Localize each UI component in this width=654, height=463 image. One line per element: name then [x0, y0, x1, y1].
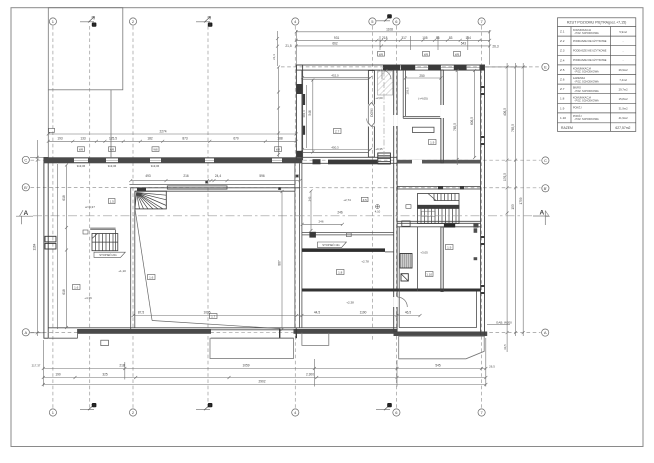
- north arrow marker B top: [196, 17, 212, 28]
- bottom connector verticals: [42, 340, 44, 387]
- boxed room labels: [73, 129, 454, 319]
- svg-text:31,9m2: 31,9m2: [619, 107, 628, 111]
- stair niche top wall lines: [90, 227, 115, 229]
- grid bubbles right: E, C, B', A: [542, 63, 549, 336]
- bottom room dim row: [132, 314, 422, 317]
- svg-text:24,4: 24,4: [215, 174, 221, 178]
- B' corridor top wall (right wing, double line): [397, 186, 480, 189]
- svg-text:GAB. W200: GAB. W200: [496, 321, 512, 325]
- svg-text:-: -: [623, 60, 624, 63]
- svg-text:931: 931: [334, 36, 340, 40]
- svg-text:452,0: 452,0: [331, 73, 339, 77]
- top-right room dim 250: [405, 77, 441, 79]
- roof outline drop line right: [110, 90, 112, 158]
- svg-text:B: B: [209, 404, 211, 408]
- svg-text:Z.6: Z.6: [560, 78, 565, 82]
- svg-text:Z.5: Z.5: [363, 198, 368, 202]
- dark wall piece D.D: [444, 223, 455, 228]
- dark segments of row-E wall: [383, 65, 485, 71]
- grid row A (horizontal dashed): [31, 332, 541, 334]
- label box below entry: [101, 340, 109, 345]
- svg-text:- POZ. SCHODKOWA: - POZ. SCHODKOWA: [574, 100, 599, 103]
- svg-text:4,10: 4,10: [375, 210, 381, 214]
- bottom wall of right wing: [394, 332, 488, 337]
- winder stair in big room corner: [135, 188, 166, 209]
- big room walls (double thin lines): [131, 70, 302, 331]
- svg-text:33,5: 33,5: [503, 344, 507, 350]
- svg-text:1.10: 1.10: [426, 273, 432, 277]
- bottom dimension row 3 overall: [42, 383, 488, 386]
- svg-text:450,3: 450,3: [331, 145, 339, 149]
- roof outline drop line left: [47, 90, 49, 158]
- svg-text:W9: W9: [379, 52, 384, 56]
- interior dim row above C wall: [47, 140, 298, 143]
- top dimension row 1: [295, 39, 491, 42]
- left vertical dimension line: [30, 140, 44, 336]
- wall with door DG90 (double line): [368, 71, 374, 158]
- window/radiator marks on right wall: [481, 86, 485, 294]
- stopien trapezoid label: [318, 242, 347, 248]
- level mark in corridor: [376, 205, 380, 209]
- svg-text:Z.2: Z.2: [560, 39, 565, 43]
- shelf rectangle top-right room: [413, 127, 435, 132]
- svg-text:1.9: 1.9: [447, 246, 452, 250]
- svg-text:190: 190: [55, 373, 61, 377]
- svg-text:POKÓJ: POKÓJ: [573, 106, 582, 109]
- svg-text:176,5: 176,5: [503, 173, 507, 181]
- svg-text:RZUT POZIOMU PIĘTRA(poz.+7,15): RZUT POZIOMU PIĘTRA(poz.+7,15): [567, 21, 627, 25]
- svg-text:STOPIEŃ 20x: STOPIEŃ 20x: [99, 253, 117, 257]
- svg-text:B': B': [24, 185, 28, 190]
- left room vertical dim: [66, 165, 68, 328]
- svg-text:+0,35: +0,35: [375, 147, 383, 151]
- svg-text:(+4,05): (+4,05): [418, 97, 428, 101]
- svg-text:193: 193: [57, 137, 63, 141]
- svg-text:1.8: 1.8: [560, 97, 565, 101]
- svg-text:PODDASZE NIE UŻYTKOWE: PODDASZE NIE UŻYTKOWE: [573, 59, 607, 62]
- svg-text:A: A: [540, 210, 545, 217]
- grid bubbles left: C, B', A: [22, 156, 29, 336]
- bottom dimension row 1: [42, 367, 488, 370]
- notch in big room top wall: [167, 186, 227, 189]
- svg-text:153: 153: [511, 204, 515, 210]
- svg-text:606,5: 606,5: [470, 117, 474, 125]
- small vertical dim near x278 top: [277, 31, 279, 66]
- svg-text:133: 133: [80, 137, 86, 141]
- svg-text:1.9: 1.9: [430, 141, 435, 145]
- north arrow marker B bottom: [196, 403, 212, 410]
- svg-text:243: 243: [307, 196, 311, 201]
- upper room vertical dim: [312, 80, 314, 152]
- svg-text:1108: 1108: [386, 27, 393, 31]
- window sill lines in row-E wall: [415, 67, 479, 69]
- svg-text:1.6: 1.6: [74, 286, 79, 290]
- section marker A right: [533, 210, 549, 226]
- svg-text:B': B': [544, 186, 548, 191]
- svg-text:Z.7: Z.7: [560, 87, 565, 91]
- svg-text:Z.3: Z.3: [560, 49, 565, 53]
- svg-text:PODDASZE NIE UŻYTKOWE: PODDASZE NIE UŻYTKOWE: [573, 49, 607, 52]
- svg-text:15,8m2: 15,8m2: [619, 97, 628, 101]
- grid line B (vertical dashed): [207, 26, 209, 408]
- section marker A left: [16, 210, 33, 224]
- dark nub on corridor bottom wall: [473, 224, 478, 228]
- grid bubbles bottom: [49, 409, 485, 416]
- window openings in row-C wall: [74, 158, 282, 162]
- top exterior wall (row E, double line): [296, 65, 484, 70]
- svg-text:+2,00: +2,00: [375, 96, 383, 100]
- lower-right room inner lines: [399, 227, 476, 328]
- svg-text:154: 154: [466, 36, 472, 40]
- svg-text:- POZ. SCHODKOWA: - POZ. SCHODKOWA: [574, 90, 599, 93]
- svg-text:29,7m2: 29,7m2: [619, 87, 628, 91]
- svg-text:- POZ. SCHODKOWA: - POZ. SCHODKOWA: [574, 71, 599, 74]
- svg-text:W9: W9: [424, 52, 429, 56]
- svg-text:873: 873: [182, 137, 188, 141]
- svg-text:W8: W8: [79, 148, 84, 152]
- corridor step line left wing: [129, 183, 295, 185]
- grid line 6 (vertical dashed): [395, 26, 397, 408]
- top-right small room left wall: [403, 70, 443, 118]
- svg-text:618: 618: [62, 195, 66, 201]
- svg-text:- POZ. SCHODKOWA: - POZ. SCHODKOWA: [574, 32, 599, 35]
- svg-text:+2,74: +2,74: [343, 198, 351, 202]
- big room vertical dim: [281, 192, 283, 331]
- lower-right divider wall vertical (double line): [441, 227, 443, 292]
- svg-text:W8: W8: [110, 148, 115, 152]
- corridor dim row 246: [302, 223, 342, 225]
- svg-text:596: 596: [259, 174, 265, 178]
- svg-text:188: 188: [277, 137, 283, 141]
- svg-text:-: -: [623, 40, 624, 43]
- svg-text:DG90: DG90: [370, 108, 374, 117]
- left wall of upper section (double line): [296, 65, 302, 160]
- inner face line of bottom wall: [48, 327, 397, 329]
- dark nub left of door below upper room: [313, 159, 321, 164]
- small boxes near stair top: [109, 199, 116, 204]
- svg-text:1.7: 1.7: [211, 315, 216, 319]
- small step below wall near grid 4: [302, 333, 329, 346]
- svg-text:670: 670: [233, 137, 239, 141]
- upper room inner face lines: [303, 78, 368, 80]
- dark wall bar (top of bottom-middle room): [302, 248, 385, 252]
- svg-text:86: 86: [436, 36, 440, 40]
- svg-text:105: 105: [422, 36, 428, 40]
- svg-text:1.6: 1.6: [149, 276, 154, 280]
- left room inner face line: [56, 164, 58, 329]
- top dimension row 2: [295, 44, 491, 47]
- svg-text:765,5: 765,5: [453, 123, 457, 131]
- svg-text:+1,10: +1,10: [118, 269, 126, 273]
- svg-text:543: 543: [461, 42, 467, 46]
- row C thin lines across middle wing: [302, 157, 397, 163]
- open band at terrace (thin lines): [211, 330, 294, 338]
- pilaster nubs on upper-section wall inner face: [303, 94, 306, 105]
- svg-text:1759: 1759: [519, 197, 523, 204]
- svg-text:Z.1: Z.1: [560, 30, 565, 34]
- grid bubbles top: [49, 18, 485, 25]
- svg-text:218: 218: [382, 36, 388, 40]
- svg-text:w=4,37: w=4,37: [85, 205, 95, 209]
- svg-text:Z.4: Z.4: [560, 58, 565, 62]
- svg-text:2.300: 2.300: [306, 373, 314, 377]
- small rect on corridor left wall: [402, 221, 410, 226]
- terrace outline bottom-middle: [210, 338, 294, 358]
- bottom wall of middle wing: [294, 329, 398, 334]
- grid row B' (horizontal dashed): [31, 187, 541, 189]
- svg-text:103,5: 103,5: [406, 87, 410, 95]
- corridor vertical dim 243: [310, 191, 312, 231]
- svg-text:1059: 1059: [242, 364, 249, 368]
- svg-text:1164: 1164: [33, 243, 37, 250]
- svg-text:250: 250: [419, 74, 425, 78]
- door arc top corridor: [382, 70, 391, 79]
- svg-text:5,9m2: 5,9m2: [619, 30, 627, 34]
- bottom dimension row 2: [42, 376, 488, 379]
- bubble labels: [24, 19, 547, 415]
- interior dim row 2274: [48, 133, 296, 135]
- svg-text:546: 546: [308, 110, 312, 116]
- grid line 5 (vertical dashed): [371, 26, 373, 340]
- svg-text:-: -: [623, 50, 624, 53]
- stair label box: [406, 205, 411, 209]
- long divider wall y289: [302, 289, 481, 292]
- svg-text:887: 887: [277, 260, 281, 266]
- svg-text:1.5: 1.5: [110, 200, 115, 204]
- radiator hatch block right wing left wall: [400, 254, 412, 269]
- svg-text:618: 618: [62, 289, 66, 295]
- svg-text:1.10: 1.10: [560, 116, 566, 120]
- north arrow marker G bottom: [80, 403, 96, 410]
- DG90 door tag: [368, 103, 375, 127]
- svg-text:317: 317: [401, 36, 407, 40]
- svg-text:2902: 2902: [258, 380, 265, 384]
- svg-text:A: A: [544, 330, 547, 335]
- svg-text:246: 246: [318, 220, 323, 224]
- svg-text:RAZEM: RAZEM: [561, 126, 573, 130]
- dark steps block at corridor bottom (middle wing): [378, 153, 391, 164]
- svg-text:Z.7: Z.7: [335, 130, 340, 134]
- tread number boxes: [422, 211, 436, 216]
- top-right room divider wall (double line): [441, 70, 443, 163]
- svg-text:C: C: [24, 158, 27, 163]
- top-right room vertical dims: [456, 71, 458, 166]
- svg-text:PODDASZE NIE UŻYTKOWE: PODDASZE NIE UŻYTKOWE: [573, 40, 607, 43]
- svg-text:- POZ. SCHODKOWA: - POZ. SCHODKOWA: [574, 118, 599, 121]
- grid line 4 (vertical dashed): [294, 26, 296, 408]
- grid line 2 (vertical dashed): [132, 26, 134, 408]
- right exterior wall (double line): [481, 65, 485, 336]
- stair label trapezoid left: [94, 252, 125, 257]
- svg-text:Z.5: Z.5: [560, 68, 565, 72]
- bottom wall of left wing: [77, 329, 211, 334]
- B' corridor bottom wall (right wing): [397, 221, 480, 227]
- svg-text:C: C: [544, 158, 547, 163]
- radiator marks on right wall top room: [474, 228, 478, 233]
- lower flight treads: [421, 209, 456, 224]
- svg-text:STOPIEŃ 19x: STOPIEŃ 19x: [322, 243, 340, 247]
- wall on grid 6 (double line): [394, 70, 397, 332]
- diagonal flight line steep: [135, 209, 152, 321]
- svg-text:217,37: 217,37: [32, 363, 41, 367]
- svg-text:+2,38: +2,38: [346, 301, 354, 305]
- svg-text:21,3: 21,3: [272, 54, 276, 60]
- radiators on left wall: [45, 236, 56, 242]
- upper room inner dim row: [303, 77, 371, 79]
- svg-text:662: 662: [332, 42, 338, 46]
- room schedule table: [558, 18, 636, 132]
- north arrow marker C bottom: [376, 403, 392, 410]
- svg-text:B: B: [209, 23, 211, 27]
- svg-text:87,5: 87,5: [138, 311, 144, 315]
- row C wall across right wing: [397, 160, 480, 164]
- svg-text:627,57m2: 627,57m2: [615, 126, 630, 130]
- top connector verticals: [295, 30, 297, 65]
- svg-text:1.8: 1.8: [338, 271, 343, 275]
- break diagonal: [428, 194, 436, 201]
- svg-text:46,5: 46,5: [405, 311, 411, 315]
- svg-text:A: A: [24, 330, 27, 335]
- junction column dots: [206, 181, 208, 183]
- svg-text:E: E: [544, 65, 547, 70]
- shaft hatch top corridor: [378, 67, 393, 95]
- junction ticks at diagonal end: [279, 329, 280, 339]
- grid line 1 (vertical dashed): [52, 26, 54, 408]
- svg-text:1190: 1190: [360, 311, 367, 315]
- door arc DG90: [367, 119, 375, 127]
- svg-text:21,5: 21,5: [285, 44, 291, 48]
- svg-text:+3,05: +3,05: [420, 251, 428, 255]
- diagonal flight line shallow: [152, 321, 279, 329]
- svg-text:9x9,06: 9x9,06: [108, 164, 117, 168]
- right vertical dimension lines: [485, 63, 527, 352]
- entry recess bottom-left: [49, 334, 78, 338]
- svg-text:1.9: 1.9: [560, 106, 565, 110]
- section line A-A: [33, 215, 540, 217]
- svg-text:125,5: 125,5: [109, 137, 117, 141]
- chimney box below radiator: [401, 274, 408, 281]
- svg-text:26,5: 26,5: [489, 365, 495, 369]
- svg-text:W8: W8: [276, 148, 281, 152]
- svg-text:+4,36: +4,36: [84, 296, 92, 300]
- big room top dim row: [129, 179, 301, 182]
- svg-text:7,4m2: 7,4m2: [619, 78, 627, 82]
- roof outline rectangle top-left: [48, 8, 123, 90]
- column nub on corridor wall: [309, 232, 316, 238]
- grid row C (horizontal dashed): [31, 159, 541, 161]
- svg-text:246: 246: [337, 211, 343, 215]
- landing dark bar: [418, 205, 460, 208]
- svg-text:W9: W9: [455, 52, 460, 56]
- grid row E (horizontal dashed): [281, 66, 541, 68]
- svg-text:83: 83: [449, 36, 453, 40]
- north arrow marker C top: [376, 14, 392, 21]
- svg-text:41,9m2: 41,9m2: [619, 116, 628, 120]
- corridor centre dash line: [383, 71, 385, 159]
- left wing straight stair: [90, 228, 118, 251]
- svg-text:182: 182: [147, 137, 153, 141]
- top wall of left wing (row C): [44, 157, 302, 163]
- svg-text:26,9m2: 26,9m2: [619, 68, 628, 72]
- svg-text:2274: 2274: [159, 129, 166, 133]
- middle wing left vertical dim: [278, 67, 280, 157]
- upper flight treads: [434, 194, 455, 201]
- small tags above walls: [49, 52, 461, 152]
- right wing main stair (two flights with landing): [418, 194, 460, 224]
- top mini dimension row 1108: [296, 31, 489, 33]
- label box on corridor wall: [346, 233, 351, 237]
- terrace trapezoid bottom-right: [399, 336, 485, 359]
- svg-text:218: 218: [119, 364, 125, 368]
- svg-text:- POZ. SCHODKOWA: - POZ. SCHODKOWA: [574, 80, 599, 83]
- svg-text:493: 493: [145, 174, 151, 178]
- grid line 7 (vertical dashed): [481, 26, 483, 408]
- svg-text:9x9,06: 9x9,06: [151, 164, 160, 168]
- svg-text:+2,78: +2,78: [361, 260, 369, 264]
- stopien wall (middle wing): [302, 233, 394, 235]
- dark wall bar below upper room: [328, 160, 377, 165]
- svg-text:9x9,06: 9x9,06: [77, 164, 86, 168]
- svg-text:393,4: 393,4: [302, 110, 306, 117]
- left exterior wall (double line): [44, 158, 48, 339]
- svg-text:W8: W8: [153, 148, 158, 152]
- grid line G (vertical dashed): [89, 26, 91, 408]
- svg-text:216: 216: [183, 174, 189, 178]
- svg-text:765,5: 765,5: [511, 124, 515, 132]
- svg-text:545: 545: [435, 364, 441, 368]
- svg-text:406,5: 406,5: [503, 108, 507, 116]
- svg-text:44,5: 44,5: [314, 311, 320, 315]
- door arc grid6 lower: [397, 297, 407, 307]
- svg-text:325: 325: [102, 373, 108, 377]
- svg-text:26,3: 26,3: [492, 45, 498, 49]
- north arrow marker G top: [80, 17, 96, 28]
